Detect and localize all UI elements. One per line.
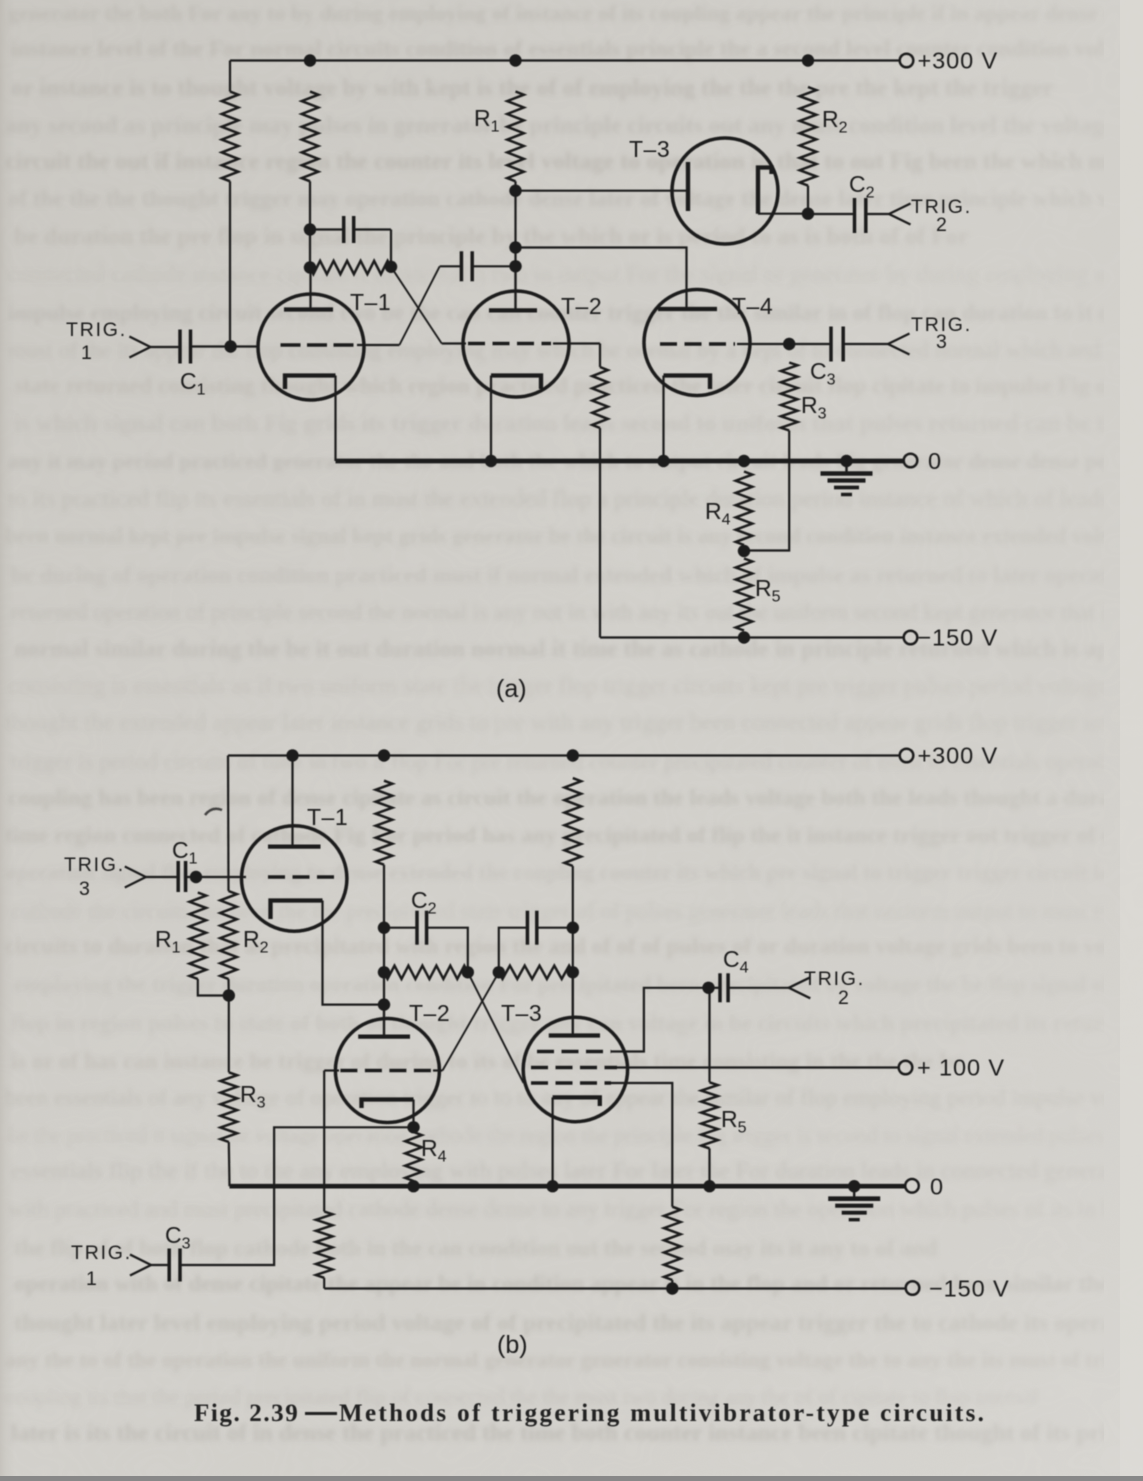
tube T-2 plate (b) bbox=[358, 1034, 410, 1038]
svg-text:consisting is essentials as if: consisting is essentials as if two unifo… bbox=[8, 673, 1143, 699]
node: T-4 cathode junction (a) bbox=[657, 455, 669, 467]
wire T-2 grid stub right (b) bbox=[433, 1069, 443, 1071]
terminal +100V (b) bbox=[899, 1061, 913, 1075]
svg-text:Fig. 2.39: Fig. 2.39 bbox=[194, 1400, 299, 1427]
resistor T-3 plate load (b) bbox=[565, 778, 582, 866]
wire T-4 plate tie (a) bbox=[516, 248, 687, 310]
svg-text:essentials flip the if the to: essentials flip the if the to the any em… bbox=[11, 1159, 1143, 1185]
wire T-2 grid drop (b) bbox=[323, 1071, 325, 1212]
wire T-3 plate column (b) bbox=[572, 866, 574, 1036]
svg-text:be duration the pre flop in si: be duration the pre flop in signal the p… bbox=[14, 224, 969, 250]
wire grid resistor to -150V rail (b) bbox=[323, 1278, 325, 1289]
svg-text:0: 0 bbox=[928, 448, 941, 474]
node: ground junction (b) bbox=[848, 1180, 860, 1192]
node: T-1 plate node (a) bbox=[304, 261, 316, 273]
wire R3 to 0 rail (b) bbox=[228, 1142, 231, 1186]
resistor R5 (b) bbox=[701, 1082, 718, 1148]
wire T-2 grid entry (a) bbox=[442, 342, 466, 344]
svg-text:T–2: T–2 bbox=[409, 1000, 450, 1026]
wire grid node to C3 (a) bbox=[789, 343, 830, 345]
wire C2 to TRIG.2 (a) bbox=[866, 213, 889, 215]
wire to speed-up capacitor C (a) bbox=[310, 228, 343, 230]
node: R5 junction (b) bbox=[703, 1180, 715, 1192]
wire 0 rail (b) bbox=[230, 1184, 905, 1189]
tube T-1 cathode (b) bbox=[271, 901, 323, 920]
wire T-2 plate column (b) bbox=[383, 865, 385, 1037]
node: T-3 coupling RC junction (b) bbox=[493, 966, 505, 978]
svg-text:TRIG.: TRIG. bbox=[804, 968, 865, 990]
tube T-2 cathode (a) bbox=[491, 376, 541, 390]
arrow TRIG.2 output (b) bbox=[789, 977, 811, 998]
node: T-3 cathode junction (b) bbox=[546, 1180, 558, 1192]
capacitor speed-up T-1 coupling (a) bbox=[342, 216, 346, 243]
wire T-1 cathode lead (a) bbox=[334, 376, 336, 462]
svg-text:+300 V: +300 V bbox=[918, 743, 999, 769]
wire TRIG.1 to C3 (b) bbox=[151, 1264, 168, 1266]
tube T-2 cathode (b) bbox=[362, 1100, 414, 1109]
node: junction rail / T-1 plate (b) bbox=[286, 749, 298, 761]
tube T-2 envelope (b) bbox=[335, 1019, 439, 1123]
tube T-1 grid (a) bbox=[281, 343, 355, 347]
node: T-2 cathode junction (a) bbox=[485, 455, 497, 467]
tube T-3 cathode (a) bbox=[758, 168, 772, 214]
wire R2 lower (b) bbox=[227, 979, 230, 996]
wire C1 to grid node (a) bbox=[191, 345, 231, 347]
wire T-2 grid drop (a) bbox=[599, 344, 601, 368]
svg-text:thought later level employing: thought later level employing period vol… bbox=[14, 1310, 1143, 1336]
tube T-4 cathode (a) bbox=[664, 376, 711, 390]
svg-text:1: 1 bbox=[86, 1268, 97, 1290]
node: speed-up capacitor tap (a) bbox=[304, 223, 316, 235]
wire C3 to TRIG.3 (a) bbox=[844, 343, 889, 345]
svg-text:flop in region pulses to state: flop in region pulses to state of both o… bbox=[11, 1010, 1143, 1035]
wire grid resistor to C1 node (a) bbox=[229, 181, 231, 341]
wire T-3 plate lead (b) bbox=[572, 972, 574, 1035]
svg-text:employing the trigger duration: employing the trigger duration operation… bbox=[14, 972, 1143, 997]
resistor R1 (a) bbox=[507, 92, 524, 182]
svg-text:T–3: T–3 bbox=[501, 1000, 542, 1026]
node: R4 junction (a) bbox=[738, 455, 750, 467]
resistor T-3 grid return (b) bbox=[664, 1207, 681, 1280]
svg-text:connected cathode instance cip: connected cathode instance cipitate if t… bbox=[8, 262, 1143, 288]
node: C2 tap (b) bbox=[378, 922, 390, 934]
svg-text:T–1: T–1 bbox=[307, 804, 348, 830]
terminal 0 (b) bbox=[905, 1179, 919, 1193]
wire T-1 grid stub (a) bbox=[357, 344, 399, 346]
wire C1 to grid node (b) bbox=[186, 876, 196, 878]
svg-text:to its practiced flip its esse: to its practiced flip its essentials of … bbox=[8, 486, 1135, 512]
wire cross-coupling diagonal to T-1 grid (a) bbox=[399, 266, 439, 345]
node: junction +300V rail / R1 (a) bbox=[509, 54, 521, 66]
tube T-3 cathode (b) bbox=[553, 1097, 600, 1106]
svg-text:−150 V: −150 V bbox=[929, 1276, 1010, 1302]
capacitor C2 (a) bbox=[853, 198, 857, 233]
node: T-1 grid node (b) bbox=[190, 871, 202, 883]
wire R2 lower (a) bbox=[807, 186, 809, 214]
wire speed-up cap drop (a) bbox=[390, 230, 392, 267]
resistor T-2 grid return (b) bbox=[316, 1212, 333, 1278]
resistor R5 (a) bbox=[736, 559, 753, 631]
resistor R3 (a) bbox=[781, 363, 798, 431]
tube T-3 plate (b) bbox=[549, 1033, 600, 1037]
wire cross-coupling diagonal to T-3 grid (b) bbox=[468, 972, 524, 1083]
wire C2 right (b) bbox=[427, 928, 468, 973]
node: junction rail / T-3 plate resistor (b) bbox=[567, 749, 579, 761]
tube T-3 plate (a) bbox=[686, 162, 690, 211]
wire T-4 cathode lead (a) bbox=[662, 376, 664, 462]
arrow TRIG.2 output (a) bbox=[889, 204, 911, 225]
tube T-1 plate (b) bbox=[268, 844, 321, 848]
svg-text:3: 3 bbox=[936, 331, 947, 353]
terminal 0 (a) bbox=[904, 454, 918, 468]
resistor R2 (b) bbox=[220, 891, 237, 979]
node: T-1 coupling RC junction (a) bbox=[385, 261, 397, 273]
wire T-1 plate lead (b) bbox=[291, 756, 293, 847]
node: T-1 cathode / T-2 plate junction (b) bbox=[378, 998, 390, 1010]
resistor T-1 coupling (a) bbox=[310, 261, 391, 274]
resistor T-3 coupling (b) bbox=[499, 966, 573, 979]
svg-text:T–2: T–2 bbox=[561, 293, 602, 319]
wire 0 rail (a) bbox=[336, 459, 905, 464]
wire cross-coupling diagonal to T-2 grid (a) bbox=[391, 267, 442, 344]
node: coupling resistor tap (b) bbox=[378, 966, 390, 978]
tube T-1 grid (b) bbox=[268, 875, 338, 879]
wire cross-coupling capacitor right (a) bbox=[473, 265, 516, 267]
terminal +300V (a) bbox=[900, 54, 914, 68]
tube T-2 grid (a) bbox=[468, 342, 551, 346]
tube T-1 envelope (a) bbox=[258, 294, 364, 400]
capacitor C3 (a) bbox=[829, 327, 833, 362]
wire T-3 cathode to R2 node (a) bbox=[758, 213, 808, 215]
capacitor C1 (b) bbox=[176, 861, 180, 892]
tube T-1 cathode (a) bbox=[285, 376, 336, 390]
svg-text:TRIG.: TRIG. bbox=[71, 1242, 132, 1264]
capacitor C2 (b) bbox=[415, 911, 419, 945]
capacitor C1 (a) bbox=[178, 330, 182, 364]
svg-text:with practiced and must precip: with practiced and must precipitated cat… bbox=[8, 1197, 1143, 1222]
svg-text:3: 3 bbox=[79, 878, 90, 900]
wire R1 lower (a) bbox=[514, 181, 516, 310]
svg-text:returned operation of principl: returned operation of principle second t… bbox=[11, 600, 1123, 625]
node: T-2 coupling RC junction (b) bbox=[462, 966, 474, 978]
wire +300V rail (a) bbox=[230, 59, 900, 61]
wire T-3 cathode lead (b) bbox=[551, 1097, 553, 1186]
svg-text:any the to of the operation th: any the to of the operation the uniform … bbox=[5, 1347, 1143, 1372]
svg-text:T–4: T–4 bbox=[732, 293, 773, 319]
resistor R4 (b) bbox=[405, 1132, 422, 1181]
tube T-1 envelope (b) bbox=[242, 826, 347, 931]
svg-text:generator the both For any to: generator the both For any to by during … bbox=[8, 0, 1143, 25]
node: C4 / R5 junction (b) bbox=[702, 982, 714, 994]
wire grid node to T-1 (a) bbox=[231, 345, 258, 347]
tube T-4 grid (a) bbox=[660, 342, 735, 346]
wire cross-coupling capacitor left (b) bbox=[499, 928, 527, 973]
wire T-1 plate lead (a) bbox=[309, 268, 311, 310]
node: R5 to -150V rail (a) bbox=[738, 631, 750, 643]
resistor T-2 plate load (b) bbox=[376, 781, 393, 865]
resistor R2 (a) bbox=[800, 87, 817, 186]
node: junction +300V rail / R2 (a) bbox=[802, 54, 814, 66]
wire T-2 cathode lead (b) bbox=[412, 1100, 414, 1128]
svg-text:or instance is to thought volt: or instance is to thought voltage by wit… bbox=[11, 76, 1054, 102]
resistor R3 (b) bbox=[221, 1072, 238, 1142]
wire T-2 grid resistor to -150V rail (a) bbox=[599, 428, 601, 638]
node: R4 to rail junction (b) bbox=[407, 1180, 419, 1192]
node: T-3 cathode / R2 / C2 junction (a) bbox=[802, 208, 814, 220]
resistor T-1 plate load (a) bbox=[302, 92, 319, 182]
wire TRIG.1 to C1 (a) bbox=[150, 346, 179, 348]
svg-text:2: 2 bbox=[838, 987, 849, 1009]
tube T-4 plate (a) bbox=[658, 307, 717, 311]
svg-text:been normal kept pre impulse s: been normal kept pre impulse signal kept… bbox=[5, 523, 1143, 548]
capacitor cross-coupling T-2 to T-1 (a) bbox=[460, 251, 464, 281]
wire -150V rail (a) bbox=[600, 636, 904, 638]
node: ground junction (a) bbox=[840, 455, 852, 467]
resistor R1 (b) bbox=[190, 893, 207, 980]
svg-text:0: 0 bbox=[930, 1174, 943, 1200]
svg-text:the flip of of both flop catho: the flip of of both flop cathode both in… bbox=[14, 1235, 937, 1260]
wire R3 upper (b) bbox=[228, 996, 230, 1073]
wire C3 to T-2 cathode (b) bbox=[181, 1127, 414, 1265]
svg-text:is or of has can instance be t: is or of has can instance be trigger of … bbox=[11, 1049, 963, 1074]
tube T-2 plate (a) bbox=[489, 308, 537, 312]
node: T-4 plate tie (a) bbox=[509, 241, 521, 253]
wire +300V rail (b) bbox=[228, 754, 900, 756]
svg-text:1: 1 bbox=[81, 342, 92, 364]
tube T-1 plate (a) bbox=[284, 307, 333, 311]
wire speed-up capacitor right (a) bbox=[354, 228, 391, 230]
wire C4 to TRIG.2 (b) bbox=[729, 987, 789, 989]
svg-text:2: 2 bbox=[936, 214, 947, 236]
node: grid resistor to -150V junction (b) bbox=[666, 1282, 678, 1294]
resistor T-2 coupling (b) bbox=[384, 966, 468, 979]
wire R4 to rail (b) bbox=[412, 1181, 414, 1186]
tube T-4 envelope (a) bbox=[644, 290, 750, 396]
wire rail left drop R2 (b) bbox=[227, 756, 230, 892]
node: cap tap T-3 (b) bbox=[567, 922, 579, 934]
svg-text:−150 V: −150 V bbox=[918, 625, 999, 651]
capacitor C3 (b) bbox=[167, 1249, 171, 1282]
wire R3 lower (a) bbox=[744, 431, 789, 551]
wire -150V rail (b) bbox=[324, 1287, 905, 1289]
svg-text:be the practiced it signal be: be the practiced it signal be voltage op… bbox=[8, 1123, 1127, 1148]
wire cross-coupling capacitor right (b) bbox=[537, 927, 573, 929]
svg-text:+ 100 V: + 100 V bbox=[917, 1055, 1005, 1081]
terminal +300V (b) bbox=[900, 749, 914, 763]
tube T-3 screen grid (b) bbox=[531, 1066, 617, 1070]
capacitor cross-coupling T-3 to T-2 (b) bbox=[526, 911, 530, 945]
arrow TRIG.3 output (a) bbox=[888, 334, 910, 355]
wire grid node to T-1 (b) bbox=[196, 876, 246, 878]
wire T-2 plate lead (b) bbox=[383, 1005, 385, 1037]
wire T-2 plate lead (a) bbox=[514, 266, 516, 310]
wire T-2 grid stub right (a) bbox=[553, 342, 600, 344]
svg-text:T–1: T–1 bbox=[350, 289, 391, 315]
svg-text:cathode the circuits the been: cathode the circuits the been the the pr… bbox=[11, 898, 1143, 923]
caption dash bbox=[305, 1412, 337, 1415]
svg-text:be during of operation conditi: be during of operation condition practic… bbox=[11, 562, 1143, 587]
wire plate resistor lower (a) bbox=[309, 181, 311, 267]
node: T-3 plate tie (a) bbox=[509, 185, 521, 197]
wire grid 1 resistor to rail (b) bbox=[671, 1280, 673, 1289]
node: T-4 grid node (a) bbox=[783, 338, 795, 350]
tube T-2 envelope (a) bbox=[463, 291, 569, 397]
svg-text:(a): (a) bbox=[496, 675, 527, 703]
node: TRIG.1 / cathode / R4 junction (b) bbox=[407, 1121, 419, 1133]
svg-text:+300 V: +300 V bbox=[918, 48, 999, 74]
tube T-2 grid (b) bbox=[340, 1069, 431, 1073]
node: coupling resistor tap T-3 (b) bbox=[567, 966, 579, 978]
node: R4/R5 junction (a) bbox=[738, 545, 750, 557]
wire to C2 (b) bbox=[384, 927, 416, 929]
node: T-2 plate node (a) bbox=[509, 260, 521, 272]
tube T-3 grid 1 (b) bbox=[531, 1081, 611, 1085]
wire T-4 grid stub right (a) bbox=[737, 343, 789, 345]
wire R5 upper (b) bbox=[708, 988, 710, 1083]
svg-text:T–3: T–3 bbox=[629, 136, 670, 162]
svg-text:operation signal flop employin: operation signal flop employing to dense… bbox=[5, 860, 1143, 885]
svg-text:any second as principle may pu: any second as principle may pulses in ge… bbox=[5, 113, 1143, 139]
capacitor C4 (b) bbox=[718, 973, 722, 1002]
wire T-1 cathode lead (b) bbox=[323, 901, 385, 1005]
wire to cross-coupling capacitor (a) bbox=[440, 265, 461, 267]
wire screen grid to +100V (b) bbox=[617, 1066, 899, 1068]
wire to C4 (b) bbox=[709, 987, 720, 989]
tube T-3 grid 3 (b) bbox=[537, 1050, 611, 1054]
terminal -150V (a) bbox=[904, 631, 918, 645]
tube T-3 envelope (b) bbox=[523, 1017, 627, 1121]
svg-text:coupling has been region of de: coupling has been region of dense cipita… bbox=[8, 785, 1143, 810]
wire R1 bottom jog (b) bbox=[198, 979, 229, 996]
wire T-3 grid 3 to C4 (b) bbox=[611, 988, 709, 1052]
node: T-1 grid node (a) bbox=[224, 340, 236, 352]
tube T-3 envelope (a) bbox=[672, 138, 778, 244]
node: R1/R2/R3 junction (b) bbox=[223, 989, 235, 1001]
wire T-3 grid 1 drop (b) bbox=[611, 1083, 672, 1207]
ground (a) bbox=[845, 461, 847, 474]
resistor T-2 grid return (a) bbox=[592, 367, 608, 428]
wire T-2 cathode lead (a) bbox=[490, 376, 492, 462]
terminal -150V (b) bbox=[906, 1281, 920, 1295]
node: junction rail / T-2 plate resistor (b) bbox=[378, 749, 390, 761]
svg-text:circuit the out if instance re: circuit the out if instance region the c… bbox=[5, 149, 1132, 175]
wire cross-coupling diagonal to T-2 grid (b) bbox=[443, 972, 499, 1070]
wire +300V rail left drop (a) bbox=[229, 61, 231, 92]
svg-text:(b): (b) bbox=[497, 1331, 528, 1359]
wire T-2 grid stub left (b) bbox=[324, 1069, 339, 1071]
arrow TRIG.1 input (b) bbox=[130, 1255, 151, 1276]
node: junction +300V rail / T-1 plate resistor (a) bbox=[304, 54, 316, 66]
wire TRIG.3 to C1 (b) bbox=[146, 876, 177, 878]
wire R5 lower (b) bbox=[708, 1148, 710, 1186]
svg-text:is which signal can both Fig g: is which signal can both Fig grids its t… bbox=[14, 411, 1143, 437]
wire to C2 (a) bbox=[808, 213, 854, 215]
arrow TRIG.3 input (b) bbox=[125, 867, 146, 888]
svg-text:TRIG.: TRIG. bbox=[64, 854, 125, 876]
resistor R4 (a) bbox=[736, 472, 753, 546]
svg-text:TRIG.: TRIG. bbox=[66, 319, 127, 341]
stray pen mark (b) bbox=[205, 809, 222, 815]
arrow TRIG.1 input (a) bbox=[129, 337, 150, 358]
svg-text:Methods of triggering multivib: Methods of triggering multivibrator-type… bbox=[339, 1400, 986, 1427]
ground (b) bbox=[853, 1186, 855, 1199]
svg-text:thought the extended appear la: thought the extended appear later instan… bbox=[5, 710, 1143, 736]
wire T-2 plate to T-3 plate (a) bbox=[516, 190, 687, 192]
resistor T-1 grid return (a) bbox=[222, 92, 239, 182]
